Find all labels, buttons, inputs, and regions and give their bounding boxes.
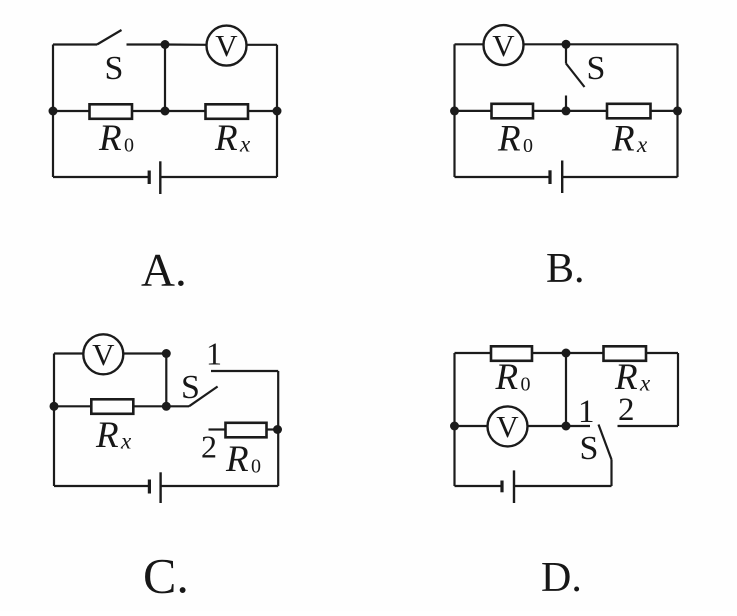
svg-text:R: R	[98, 118, 122, 159]
wire A middle vertical	[164, 45, 166, 112]
svg-text:x: x	[636, 132, 648, 157]
label R0 (circuit C)	[225, 439, 261, 480]
svg-text:2: 2	[618, 392, 635, 428]
wire C mid-left to Rx	[54, 405, 90, 407]
wire B bottom-left to battery	[455, 176, 551, 178]
voltmeter V (circuit A)	[207, 26, 247, 66]
svg-text:R: R	[611, 119, 635, 160]
wire D top-left to R0	[455, 352, 491, 354]
contact 2 wire (circuit D)	[618, 425, 679, 427]
wire A left vertical	[52, 45, 54, 178]
contact 2 stub (circuit C)	[209, 428, 225, 430]
option label C.	[143, 548, 189, 604]
wire B left vertical	[453, 44, 455, 177]
wire D Rx to top-right corner	[647, 352, 679, 354]
switch S (circuit C, blade toward contact 1)	[189, 387, 218, 407]
node A mid-center	[161, 107, 170, 116]
resistor Rx (circuit C)	[91, 399, 133, 414]
wire C Rx to mid node and switch pivot	[134, 405, 189, 407]
battery (circuit B) long positive plate	[561, 161, 563, 194]
resistor R0 (circuit C)	[226, 423, 267, 438]
svg-text:B.: B.	[546, 246, 585, 292]
svg-text:2: 2	[201, 428, 217, 464]
svg-text:V: V	[496, 409, 519, 444]
svg-text:S: S	[580, 430, 599, 467]
wire B top-left to voltmeter	[455, 43, 484, 45]
switch S (circuit B, open blade)	[566, 64, 585, 88]
label S (circuit D)	[580, 430, 599, 467]
wire A top node to voltmeter	[165, 43, 207, 45]
label Rx (circuit C)	[95, 415, 132, 456]
svg-text:R: R	[497, 119, 521, 160]
label Rx (circuit B)	[611, 119, 648, 160]
label S (circuit A)	[105, 50, 124, 87]
battery (circuit C) long positive plate	[159, 472, 161, 503]
label Rx (circuit D)	[614, 357, 651, 398]
svg-text:0: 0	[523, 135, 533, 157]
node C R0 right junction	[273, 425, 282, 434]
resistor R0 (circuit D)	[491, 346, 532, 361]
label S (circuit C)	[181, 369, 200, 406]
node C mid-right (switch common)	[162, 402, 171, 411]
switch S (circuit D) lower lead	[610, 460, 612, 487]
resistor Rx (circuit D)	[604, 346, 647, 361]
resistor Rx (circuit A)	[206, 104, 249, 119]
svg-text:D.: D.	[541, 555, 582, 601]
battery (circuit A) short negative plate	[148, 171, 151, 185]
node D top	[562, 349, 571, 358]
switch S (circuit A, open blade)	[97, 30, 122, 45]
svg-text:R: R	[95, 415, 119, 456]
battery (circuit C) short negative plate	[148, 480, 151, 494]
label 2 (circuit D)	[618, 392, 635, 428]
wire A mid-left to R0	[53, 110, 89, 112]
svg-text:C.: C.	[143, 548, 189, 604]
svg-text:S: S	[587, 50, 606, 87]
wire D R0 to top node	[533, 352, 603, 354]
switch S (circuit B) upper lead	[565, 44, 567, 63]
wire C middle vertical	[165, 354, 167, 407]
label 1 (circuit D)	[578, 394, 595, 430]
label 1 (circuit C)	[206, 336, 222, 372]
resistor R0 (circuit B)	[492, 104, 534, 119]
battery (circuit A) long positive plate	[159, 161, 161, 194]
wire C bottom-left to battery	[54, 485, 149, 487]
node B mid-left	[450, 106, 459, 115]
label S (circuit B)	[587, 50, 606, 87]
svg-text:1: 1	[206, 336, 222, 372]
wire C battery to bottom-right	[161, 485, 279, 487]
node A top (junction dot)	[161, 40, 170, 49]
wire C left vertical	[53, 354, 55, 487]
label R0 (circuit B)	[497, 119, 533, 160]
svg-text:V: V	[492, 28, 515, 63]
node D mid-center	[562, 422, 571, 431]
svg-text:V: V	[92, 337, 115, 372]
svg-text:A.: A.	[141, 245, 187, 297]
wire A top-left to switch	[53, 43, 97, 45]
option label A.	[141, 245, 187, 297]
label R0 (circuit A)	[98, 118, 134, 159]
wire B R0 to mid node	[534, 110, 607, 112]
svg-text:R: R	[495, 357, 519, 398]
wire B voltmeter to top-right corner	[524, 43, 678, 45]
svg-text:S: S	[181, 369, 200, 406]
wire D mid-left to voltmeter	[455, 425, 488, 427]
wire D battery to switch lead	[514, 485, 612, 487]
label R0 (circuit D)	[495, 357, 531, 398]
wire D voltmeter to contact 1	[528, 425, 591, 427]
wire C voltmeter to top node	[123, 352, 166, 354]
node C top-right	[162, 349, 171, 358]
wire A Rx to mid-right	[249, 110, 278, 112]
wire A bottom-left to battery	[53, 176, 150, 178]
battery (circuit D) short negative plate	[500, 481, 503, 493]
wire B mid-left to R0	[455, 110, 491, 112]
battery (circuit B) short negative plate	[548, 170, 551, 184]
wire A R0 to mid node	[133, 110, 205, 112]
battery (circuit D) long positive plate	[513, 470, 515, 503]
resistor R0 (circuit A)	[90, 104, 133, 119]
label Rx (circuit A)	[214, 118, 251, 159]
wire D bottom-left to battery	[455, 485, 503, 487]
wire D right vertical	[677, 353, 679, 426]
resistor Rx (circuit B)	[607, 104, 651, 119]
svg-text:S: S	[105, 50, 124, 87]
wire A right vertical	[276, 45, 278, 177]
switch S (circuit B) lower contact stub	[565, 96, 567, 111]
svg-text:x: x	[639, 371, 651, 396]
voltmeter V (circuit D)	[488, 406, 528, 446]
wire A battery to bottom-right	[160, 176, 277, 178]
option label D.	[541, 555, 582, 601]
wire D middle vertical	[565, 353, 567, 426]
node A mid-left	[49, 107, 58, 116]
label 2 (circuit C)	[201, 428, 217, 464]
svg-text:0: 0	[521, 374, 531, 396]
wire B Rx to mid-right	[651, 110, 678, 112]
wire C R0 to right vertical	[267, 428, 278, 430]
node A mid-right	[273, 107, 282, 116]
node B top	[562, 40, 571, 49]
node D mid-left	[450, 422, 459, 431]
voltmeter V (circuit B)	[484, 25, 524, 65]
svg-text:0: 0	[124, 135, 134, 157]
svg-text:0: 0	[251, 456, 261, 478]
node C mid-left	[50, 402, 59, 411]
wire B battery to bottom-right	[562, 176, 678, 178]
option label B.	[546, 246, 585, 292]
wire B right vertical	[676, 44, 678, 177]
voltmeter V (circuit C)	[83, 334, 123, 374]
wire A voltmeter to right top corner	[247, 44, 278, 46]
svg-text:x: x	[120, 429, 132, 454]
wire C top-left to voltmeter	[54, 352, 84, 354]
wire A switch to top node	[127, 43, 166, 45]
wire D left vertical	[453, 353, 455, 486]
svg-text:x: x	[239, 132, 251, 157]
svg-text:V: V	[215, 28, 238, 63]
svg-text:1: 1	[578, 394, 595, 430]
svg-text:R: R	[225, 439, 249, 480]
contact 1 wire (circuit C)	[211, 370, 278, 372]
node B mid-right	[673, 106, 682, 115]
wire C right vertical	[277, 371, 279, 486]
node B mid-center	[562, 106, 571, 115]
switch S (circuit D, open blade)	[599, 425, 612, 460]
svg-text:R: R	[214, 118, 238, 159]
